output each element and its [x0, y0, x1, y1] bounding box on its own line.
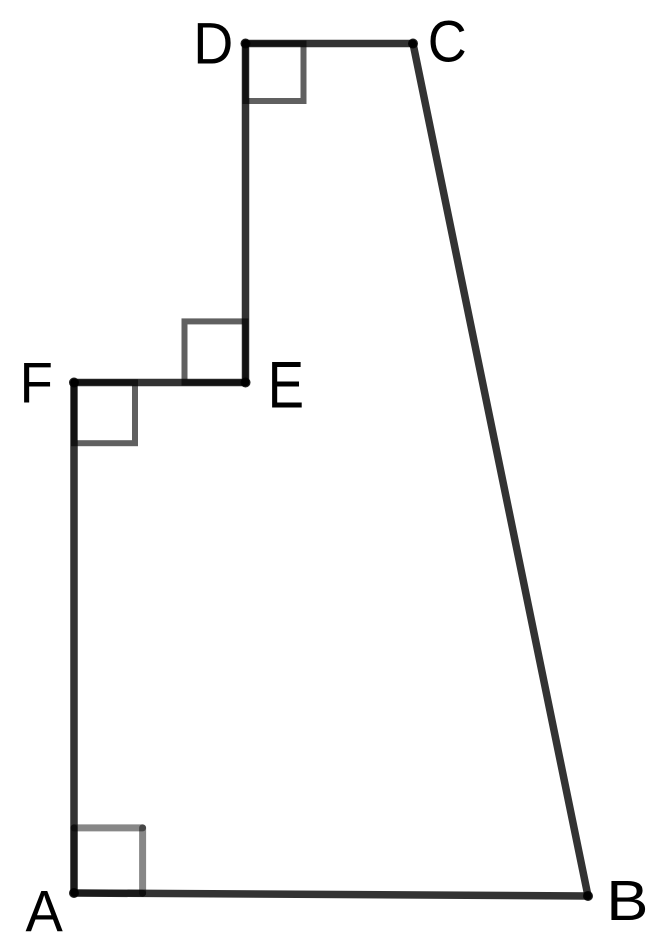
vertex point C: [408, 39, 418, 49]
vertex point E: [241, 378, 251, 388]
side DE: [242, 44, 250, 383]
svg-text:C: C: [428, 9, 467, 74]
svg-text:E: E: [268, 348, 304, 422]
right-angle marker at A, side on AB: [74, 890, 143, 897]
right-angle marker at A, side on FA: [71, 828, 78, 893]
vertex point B: [583, 891, 593, 901]
right-angle marker at A, right side: [139, 828, 146, 893]
svg-text:B: B: [606, 869, 648, 932]
side CD: [246, 40, 414, 48]
right-angle marker at A, top side: [74, 824, 143, 831]
right-angle marker at D: [246, 44, 304, 102]
svg-text:F: F: [20, 350, 53, 415]
side EF: [74, 379, 246, 387]
vertex point A: [69, 888, 79, 898]
side BC: [413, 44, 588, 897]
side AB: [74, 893, 588, 896]
svg-text:D: D: [193, 11, 233, 77]
right-angle marker at E: [185, 321, 246, 382]
vertex point F: [69, 378, 79, 388]
vertex point D: [241, 39, 251, 49]
right-angle marker at F: [74, 382, 135, 443]
side FA: [70, 383, 78, 894]
svg-text:A: A: [26, 879, 64, 944]
